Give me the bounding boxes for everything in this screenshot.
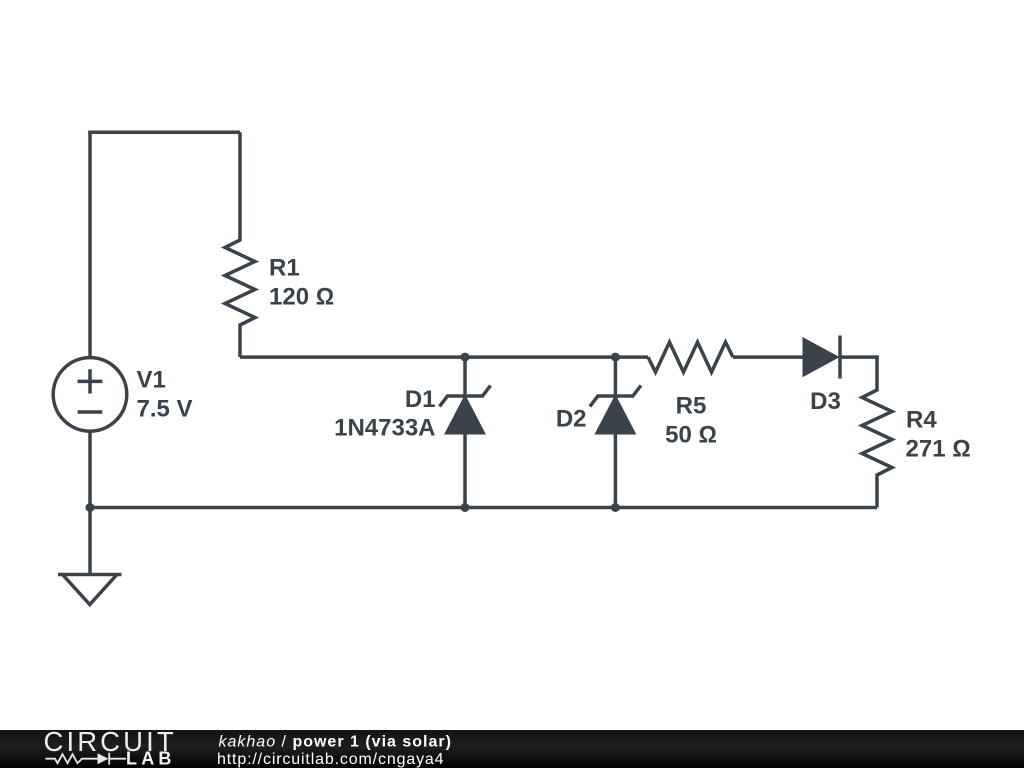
diode D3 triangle (804, 340, 837, 375)
wire D3 to corner (840, 355, 879, 359)
resistor R1 (225, 132, 255, 357)
svg-text:120 Ω: 120 Ω (269, 284, 334, 311)
zener diode D1 cathode bar (440, 386, 491, 407)
svg-text:LAB: LAB (126, 749, 176, 768)
wire D1 cathode (463, 357, 467, 397)
CircuitLab logo resistor-diode glyph (46, 753, 127, 765)
resistor R4 (862, 355, 892, 507)
ground symbol (58, 575, 122, 605)
wire top horizontal (88, 131, 240, 135)
wire bottom horizontal (90, 506, 877, 510)
zener diode D2 cathode bar (590, 386, 641, 407)
junction dot D1 top (461, 353, 470, 362)
V1 minus sign (78, 410, 103, 414)
svg-text:50 Ω: 50 Ω (665, 422, 717, 449)
wire D1 anode (463, 432, 467, 508)
wire D2 anode (614, 432, 618, 508)
junction dot D1 bottom (461, 503, 470, 512)
wire D2 cathode (614, 357, 618, 397)
footer bar (0, 730, 1024, 768)
wire left vertical (88, 131, 92, 358)
junction dot ground node (86, 503, 95, 512)
junction dot D2 top (611, 353, 620, 362)
wire mid horizontal (240, 355, 648, 359)
voltage source V1 body (53, 358, 127, 432)
svg-text:D2: D2 (556, 406, 587, 433)
zener diode D1 triangle (447, 398, 484, 434)
svg-text:R4: R4 (906, 407, 937, 434)
svg-text:7.5 V: 7.5 V (137, 396, 193, 423)
svg-text:R1: R1 (269, 255, 300, 282)
svg-text:D1: D1 (405, 386, 436, 413)
V1 plus sign (78, 369, 103, 393)
wire V1 to ground (88, 431, 92, 574)
svg-text:V1: V1 (137, 367, 166, 394)
svg-text:http://circuitlab.com/cngaya4: http://circuitlab.com/cngaya4 (217, 751, 444, 768)
resistor R5 (648, 342, 733, 372)
svg-text:271 Ω: 271 Ω (906, 436, 971, 463)
diode D3 cathode bar (838, 336, 842, 379)
svg-text:R5: R5 (676, 393, 707, 420)
zener diode D2 triangle (597, 398, 634, 434)
CircuitLab logo diode triangle (98, 753, 109, 764)
wire R5 to D3 (733, 355, 804, 359)
svg-text:1N4733A: 1N4733A (334, 415, 435, 442)
svg-text:D3: D3 (810, 388, 841, 415)
junction dot D2 bottom (611, 503, 620, 512)
svg-text:kakhao / power 1 (via solar): kakhao / power 1 (via solar) (219, 733, 452, 750)
